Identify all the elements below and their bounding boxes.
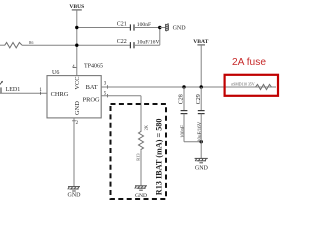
svg-text:R6: R6 <box>29 41 34 45</box>
node junction VBAT/rail <box>200 85 203 88</box>
svg-text:U6: U6 <box>52 70 59 76</box>
pin 1 number <box>39 88 42 95</box>
node junction C28/C29 <box>200 140 203 143</box>
svg-text:LED1: LED1 <box>6 87 21 93</box>
svg-text:100nF: 100nF <box>181 125 186 138</box>
power flag VBAT <box>193 39 208 45</box>
svg-text:10uF/16V: 10uF/16V <box>198 121 203 142</box>
node junction VBUS/C21 <box>75 26 78 29</box>
wire GND pin2 down <box>73 118 75 186</box>
wire C28 bottom to C29 <box>184 141 201 143</box>
svg-text:2K: 2K <box>143 124 148 130</box>
svg-text:R13: R13 <box>135 153 140 161</box>
wire R6 to C22 <box>22 44 130 46</box>
svg-text:100nF: 100nF <box>137 22 151 28</box>
wire R13 to gnd <box>140 150 142 185</box>
capacitor C22 <box>117 39 160 48</box>
svg-text:C22: C22 <box>117 39 127 45</box>
wire to right gnd <box>160 27 166 29</box>
svg-text:GND: GND <box>173 26 187 32</box>
ground (rotated earth) <box>166 24 169 32</box>
capacitor C29 <box>196 87 205 158</box>
svg-text:GND: GND <box>195 166 209 172</box>
svg-text:10uF/16V: 10uF/16V <box>137 39 160 45</box>
pin 3 number <box>104 82 108 89</box>
wire PROG <box>101 95 141 97</box>
svg-text:C21: C21 <box>117 22 127 28</box>
svg-text:GND: GND <box>135 193 147 199</box>
pin 2 number <box>72 121 78 126</box>
capacitor C21 <box>117 22 151 31</box>
svg-text:C28: C28 <box>179 94 185 104</box>
svg-text:PROG: PROG <box>83 96 100 103</box>
wire vertical join C22-C21 <box>159 28 161 46</box>
svg-text:GND: GND <box>74 101 81 115</box>
node junction VBUS/R6 <box>75 44 78 47</box>
dashed highlight box R13 <box>111 104 167 199</box>
svg-text:VCC: VCC <box>74 76 81 89</box>
svg-text:TP4065: TP4065 <box>84 64 103 70</box>
svg-text:nSMD110 35V: nSMD110 35V <box>231 82 254 86</box>
ground GND in dashed box <box>135 186 147 190</box>
svg-text:2A fuse: 2A fuse <box>232 57 266 68</box>
wire VBAT down <box>200 45 202 87</box>
power flag VBUS <box>69 4 84 10</box>
svg-text:VBUS: VBUS <box>69 4 84 10</box>
pin 5 number <box>104 91 108 97</box>
ground GND right <box>195 158 208 162</box>
op-amp U6 TP4065 body <box>47 64 103 118</box>
wire C21 to gnd node <box>134 27 160 29</box>
resistor R13 <box>135 124 148 161</box>
fuse F1 <box>231 82 271 89</box>
node junction C28/rail <box>182 85 185 88</box>
resistor R6 <box>0 41 34 48</box>
capacitor C28 <box>179 87 188 142</box>
wire VBUS to C21 <box>77 27 131 29</box>
ground GND chip <box>68 187 80 191</box>
svg-text:C29: C29 <box>196 94 202 104</box>
svg-text:CHRG: CHRG <box>51 91 69 98</box>
node junction caps/gnd <box>158 26 161 29</box>
svg-text:BAT: BAT <box>86 84 98 91</box>
svg-text:R13 IBAT (mA) = 580: R13 IBAT (mA) = 580 <box>155 119 164 196</box>
red highlight box fuse <box>225 75 278 96</box>
wire LED1 to pin1 CHRG <box>0 92 47 94</box>
wire C22 to vertical join <box>134 44 160 46</box>
wire VBUS vertical to pin 4 <box>76 10 78 76</box>
LED1 <box>0 81 20 94</box>
svg-text:GND: GND <box>68 193 82 199</box>
pin 4 number <box>72 65 76 70</box>
svg-text:VBAT: VBAT <box>193 39 208 45</box>
wire BAT rail <box>101 86 276 88</box>
